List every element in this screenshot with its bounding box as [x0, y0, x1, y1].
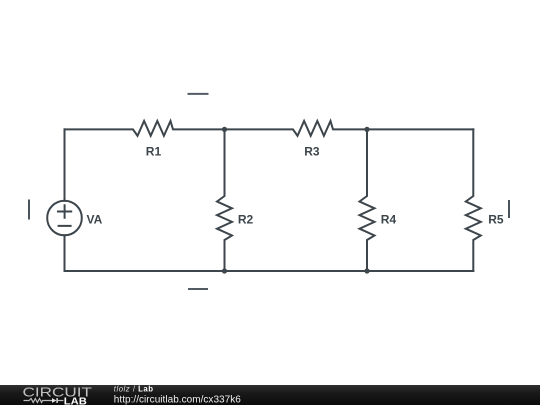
svg-text:R1: R1: [146, 144, 162, 158]
svg-text:R3: R3: [304, 144, 320, 158]
svg-text:R4: R4: [381, 213, 397, 227]
svg-text:tlolz / Lab: tlolz / Lab: [114, 385, 154, 393]
svg-text:LAB: LAB: [64, 396, 87, 406]
svg-text:http://circuitlab.com/cx337k6: http://circuitlab.com/cx337k6: [114, 394, 241, 405]
svg-text:R5: R5: [488, 213, 504, 227]
svg-text:VA: VA: [87, 213, 103, 227]
svg-text:R2: R2: [238, 213, 254, 227]
